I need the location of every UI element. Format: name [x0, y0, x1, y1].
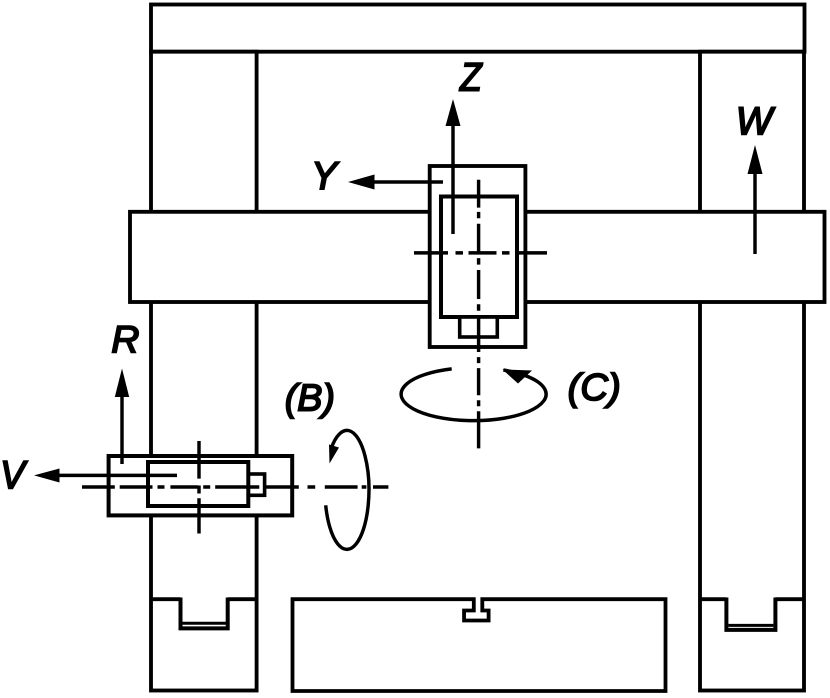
spindle nose tab [460, 317, 498, 337]
left column foot slot [151, 598, 256, 629]
top beam [151, 5, 805, 52]
Y axis arrow [348, 175, 443, 190]
right column foot slot [700, 598, 804, 630]
left unit vertical centerline [197, 441, 200, 534]
V axis arrow [34, 469, 177, 483]
Z label [459, 63, 482, 90]
spindle horizontal centerline [414, 251, 547, 254]
spindle vertical centerline [477, 180, 480, 449]
V label [3, 461, 27, 488]
table with T-slot [293, 599, 666, 691]
R axis arrow [115, 369, 129, 465]
B rotation arc around left unit [326, 430, 369, 549]
spindle head outer housing [430, 166, 526, 347]
Y label [315, 162, 339, 189]
left horizontal unit inner box [148, 462, 248, 506]
left unit nose tab [249, 474, 265, 495]
R label [113, 326, 139, 352]
right column [700, 52, 804, 691]
C rotation arc around spindle [401, 369, 546, 421]
left horizontal unit outer box [109, 456, 293, 515]
spindle ram inner box [441, 197, 517, 318]
W label [739, 107, 775, 134]
left column [151, 52, 257, 691]
B label [287, 383, 333, 418]
left unit horizontal centerline [82, 485, 388, 488]
cross rail beam [130, 212, 825, 302]
W axis arrow [748, 145, 763, 254]
Z axis arrow [446, 99, 461, 234]
C label [569, 373, 618, 408]
